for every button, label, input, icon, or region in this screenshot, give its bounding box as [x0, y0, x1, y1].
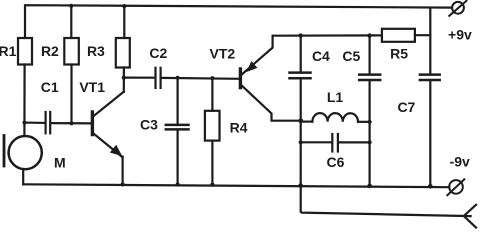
- svg-text:C3: C3: [140, 117, 158, 133]
- svg-text:-9v: -9v: [450, 154, 470, 170]
- svg-text:R3: R3: [87, 43, 105, 59]
- svg-text:R5: R5: [390, 46, 408, 62]
- svg-text:R4: R4: [230, 120, 248, 136]
- svg-text:C4: C4: [312, 48, 330, 64]
- svg-text:R1: R1: [0, 43, 17, 59]
- svg-text:+9v: +9v: [448, 26, 472, 42]
- svg-text:VT2: VT2: [210, 45, 236, 61]
- svg-text:C5: C5: [342, 48, 360, 64]
- svg-text:L1: L1: [327, 89, 344, 105]
- svg-text:C7: C7: [397, 99, 415, 115]
- svg-text:C2: C2: [149, 45, 167, 61]
- svg-text:VT1: VT1: [79, 79, 105, 95]
- svg-text:C1: C1: [41, 79, 59, 95]
- svg-text:R2: R2: [41, 43, 59, 59]
- svg-text:M: M: [54, 155, 66, 171]
- svg-text:C6: C6: [327, 154, 345, 170]
